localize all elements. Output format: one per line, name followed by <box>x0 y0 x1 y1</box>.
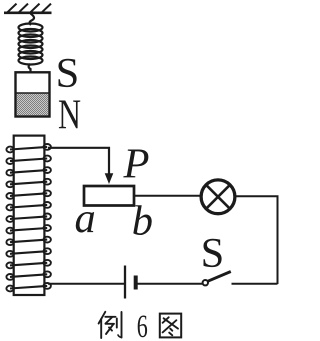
ceiling <box>4 4 52 13</box>
wire (lamp to right corner, down right side) <box>234 196 277 284</box>
svg-text:S: S <box>201 230 225 277</box>
switch S <box>203 272 231 286</box>
wire (rheostat b to lamp) <box>134 195 202 197</box>
battery cell <box>125 266 136 299</box>
svg-text:b: b <box>132 198 153 245</box>
svg-text:P: P <box>123 140 150 187</box>
caption character 例 <box>99 312 122 338</box>
magnet bar <box>16 72 50 116</box>
wire (spring to magnet) <box>29 64 31 73</box>
wire (ceiling to spring) <box>30 14 34 26</box>
caption character 图 <box>160 314 181 338</box>
arrowhead onto slider P <box>105 173 114 184</box>
rheostat R <box>84 186 134 206</box>
coil core <box>14 136 45 295</box>
spring <box>19 24 43 65</box>
svg-text:6: 6 <box>137 309 148 341</box>
lamp <box>201 180 235 214</box>
coil turns <box>6 144 51 291</box>
wire (switch to battery) <box>137 283 203 285</box>
svg-text:N: N <box>58 92 81 139</box>
svg-text:S: S <box>56 50 80 97</box>
wire (bottom right segment) <box>232 283 278 285</box>
wire (coil top to slider arrow) <box>48 148 109 174</box>
wire (battery to coil bottom) <box>48 283 124 285</box>
svg-text:a: a <box>75 195 96 242</box>
